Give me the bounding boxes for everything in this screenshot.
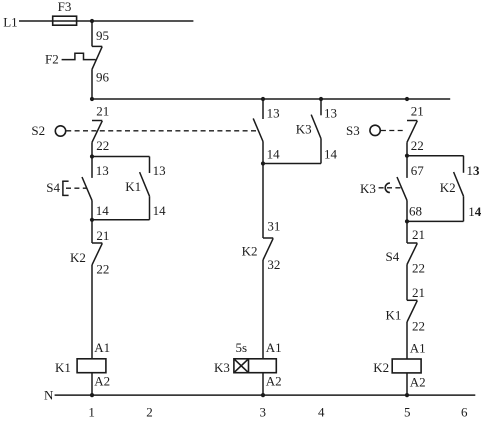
pin A2 xyxy=(410,375,426,390)
svg-text:2: 2 xyxy=(146,405,153,420)
svg-text:K2: K2 xyxy=(440,180,456,195)
svg-text:68: 68 xyxy=(409,204,422,219)
pushbutton S3 (NC 21-22) xyxy=(346,121,417,143)
svg-text:13: 13 xyxy=(467,163,481,178)
pin A1 xyxy=(410,341,426,356)
svg-text:21: 21 xyxy=(96,228,109,243)
auxiliary contact K3 (NO 13-14) xyxy=(296,99,321,164)
pin 68 xyxy=(409,204,422,219)
column reference 5 xyxy=(404,405,411,420)
pin 14 xyxy=(267,147,281,162)
junction bus/column3 xyxy=(261,97,265,101)
junction N/column5 xyxy=(405,393,409,397)
svg-text:6: 6 xyxy=(461,405,468,420)
svg-text:21: 21 xyxy=(411,103,424,118)
auxiliary contact K1 (NC 21-22) xyxy=(386,300,418,322)
junction L1/column1 xyxy=(90,19,94,23)
svg-text:K2: K2 xyxy=(70,250,86,265)
pin 13 xyxy=(324,106,337,121)
svg-text:S2: S2 xyxy=(31,123,45,138)
svg-text:95: 95 xyxy=(96,28,109,43)
wire branch bottom xyxy=(92,219,150,221)
net L1 label xyxy=(3,14,17,29)
wire branch bottom (col5-col6) xyxy=(407,220,464,222)
svg-text:13: 13 xyxy=(96,163,109,178)
svg-text:31: 31 xyxy=(267,219,280,234)
svg-text:22: 22 xyxy=(96,138,109,153)
wire xyxy=(262,260,264,359)
wire xyxy=(406,142,408,155)
junction bus/column5 xyxy=(405,97,409,101)
svg-text:1: 1 xyxy=(88,405,95,420)
pin 14 (S4) xyxy=(96,203,110,218)
svg-text:K3: K3 xyxy=(360,181,376,196)
pin 31 xyxy=(267,219,280,234)
column reference 1 xyxy=(88,405,95,420)
svg-text:22: 22 xyxy=(411,138,424,153)
junction bus/column1 xyxy=(90,97,94,101)
svg-text:K1: K1 xyxy=(125,179,141,194)
svg-text:F2: F2 xyxy=(45,51,59,66)
wire xyxy=(262,164,264,239)
pin 32 xyxy=(267,257,280,272)
pin 22 xyxy=(96,138,109,153)
svg-text:A2: A2 xyxy=(266,374,282,389)
pin 13 (K1) xyxy=(153,163,166,178)
svg-text:S4: S4 xyxy=(46,180,60,195)
auxiliary contact K2 (NC 21-22) xyxy=(70,220,102,265)
coil K1 xyxy=(55,359,106,375)
wire xyxy=(262,142,264,164)
svg-text:K1: K1 xyxy=(55,360,71,375)
junction parallel branch bottom xyxy=(90,218,94,222)
wire xyxy=(91,373,93,395)
pin 22 xyxy=(411,138,424,153)
wire control bus xyxy=(92,98,450,100)
wire xyxy=(406,373,408,395)
svg-text:S4: S4 xyxy=(386,249,400,264)
svg-text:A1: A1 xyxy=(266,340,282,355)
svg-text:A1: A1 xyxy=(410,341,426,356)
svg-text:67: 67 xyxy=(411,163,425,178)
svg-text:96: 96 xyxy=(96,70,110,85)
svg-text:22: 22 xyxy=(96,262,109,277)
wire branch top (col5-col6) xyxy=(407,155,464,157)
pin A2 xyxy=(94,374,110,389)
pin 21 xyxy=(96,228,109,243)
wire branch top xyxy=(92,156,150,158)
junction parallel branch top xyxy=(90,154,94,158)
pin 21 xyxy=(96,103,109,118)
svg-text:N: N xyxy=(44,387,54,402)
pin 22 xyxy=(96,262,109,277)
svg-text:13: 13 xyxy=(324,106,337,121)
wire xyxy=(406,200,408,221)
pushbutton S4 (NO 13-14) xyxy=(46,157,92,201)
junction N/column1 xyxy=(90,393,94,397)
timed contact K3 (NO delayed close 67-68) xyxy=(360,156,407,201)
fuse F3 xyxy=(53,0,77,25)
column reference 4 xyxy=(318,405,325,420)
svg-text:5: 5 xyxy=(404,405,411,420)
junction N/column3 xyxy=(261,393,265,397)
svg-text:F3: F3 xyxy=(58,0,72,14)
svg-text:21: 21 xyxy=(412,285,425,300)
coil K3 (time relay 5s) xyxy=(214,359,276,375)
wire branch bottom (col3-col4) xyxy=(263,163,321,165)
auxiliary contact K2 (NO 13-14) xyxy=(440,156,464,222)
wire xyxy=(91,265,93,359)
pin 14 (K1) xyxy=(153,203,167,218)
svg-text:14: 14 xyxy=(468,204,482,219)
wire xyxy=(406,265,408,301)
svg-text:K3: K3 xyxy=(296,121,312,136)
value label 5s xyxy=(236,340,248,355)
svg-text:32: 32 xyxy=(267,257,280,272)
pushbutton S2 (NC 21-22) xyxy=(31,121,258,143)
svg-text:A2: A2 xyxy=(94,374,110,389)
wire xyxy=(91,70,93,99)
svg-text:21: 21 xyxy=(412,227,425,242)
junction bus/column4 xyxy=(319,97,323,101)
svg-text:4: 4 xyxy=(318,405,325,420)
auxiliary contact K1 (NO 13-14) xyxy=(125,157,149,220)
column reference 6 xyxy=(461,405,468,420)
pin 13 (S4) xyxy=(96,163,109,178)
svg-text:K3: K3 xyxy=(214,360,230,375)
junction parallel branch bottom (col5) xyxy=(405,219,409,223)
pin 21 xyxy=(411,103,424,118)
svg-text:13: 13 xyxy=(267,106,280,121)
pin 22 xyxy=(412,319,425,334)
wire xyxy=(262,373,264,395)
auxiliary contact S4 (NC 21-22) xyxy=(386,221,418,264)
wire L1 rail xyxy=(19,20,193,22)
svg-text:A1: A1 xyxy=(94,340,110,355)
svg-text:L1: L1 xyxy=(3,14,17,29)
pin A1 xyxy=(266,340,282,355)
svg-text:K1: K1 xyxy=(386,307,402,322)
coil K2 xyxy=(373,359,421,375)
pin 22 xyxy=(412,261,425,276)
pin 13 xyxy=(467,163,481,178)
wire N rail xyxy=(55,394,476,396)
pin A1 xyxy=(94,340,110,355)
pin 96 xyxy=(96,70,110,85)
wire xyxy=(91,200,93,219)
pin 14 xyxy=(468,204,482,219)
svg-text:22: 22 xyxy=(412,319,425,334)
overload relay contact F2 (NC 95-96) xyxy=(45,46,102,69)
column reference 2 xyxy=(146,405,153,420)
junction parallel branch bottom (col3) xyxy=(261,161,265,165)
junction parallel branch top (col5) xyxy=(405,154,409,158)
column reference 3 xyxy=(260,405,267,420)
pin 95 xyxy=(96,28,109,43)
wire xyxy=(91,142,93,156)
auxiliary contact K2 (NC 31-32) xyxy=(242,238,274,260)
svg-text:S3: S3 xyxy=(346,123,360,138)
pin 67 xyxy=(411,163,425,178)
net N label xyxy=(44,387,54,402)
contact S2 (NO 13-14) xyxy=(253,99,263,142)
svg-text:13: 13 xyxy=(153,163,166,178)
svg-text:14: 14 xyxy=(324,147,338,162)
pin 13 xyxy=(267,106,280,121)
svg-text:22: 22 xyxy=(412,261,425,276)
svg-text:K2: K2 xyxy=(242,244,258,259)
svg-text:14: 14 xyxy=(267,147,281,162)
pin A2 xyxy=(266,374,282,389)
svg-text:21: 21 xyxy=(96,103,109,118)
pin 14 xyxy=(324,147,338,162)
svg-text:3: 3 xyxy=(260,405,267,420)
wire xyxy=(91,21,93,46)
svg-text:14: 14 xyxy=(153,203,167,218)
pin 21 xyxy=(412,285,425,300)
svg-text:14: 14 xyxy=(96,203,110,218)
pin 21 xyxy=(412,227,425,242)
svg-text:5s: 5s xyxy=(236,340,248,355)
wire xyxy=(406,322,408,359)
svg-text:K2: K2 xyxy=(373,360,389,375)
svg-text:A2: A2 xyxy=(410,375,426,390)
